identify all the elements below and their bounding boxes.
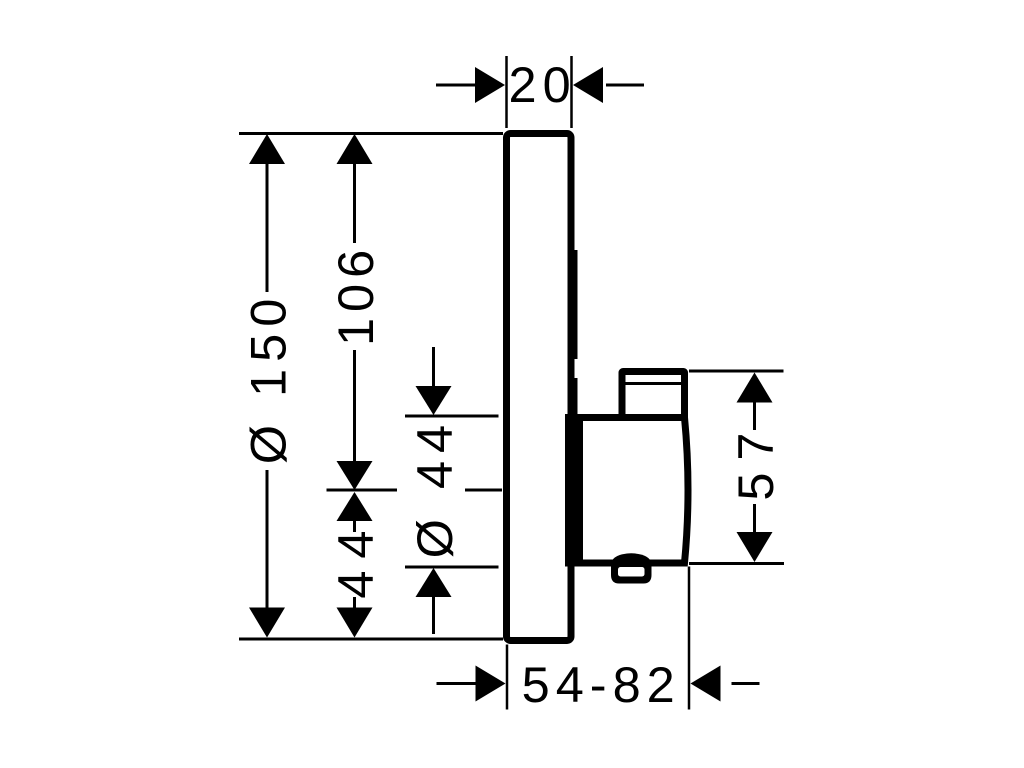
svg-text:54-82: 54-82 [522, 656, 681, 713]
svg-text:Ø 44: Ø 44 [406, 417, 463, 558]
svg-text:20: 20 [509, 56, 577, 113]
svg-text:57: 57 [727, 421, 784, 501]
svg-text:Ø 150: Ø 150 [240, 292, 297, 465]
svg-text:106: 106 [327, 244, 384, 346]
svg-text:44: 44 [327, 519, 384, 599]
